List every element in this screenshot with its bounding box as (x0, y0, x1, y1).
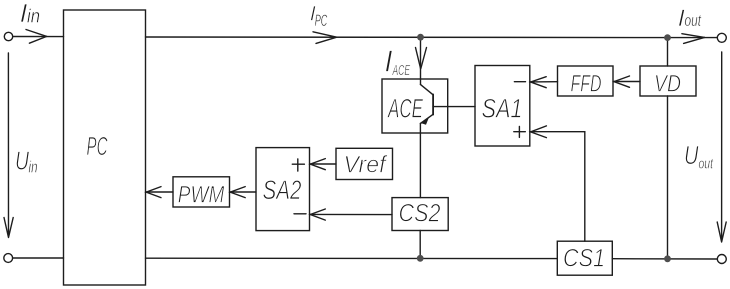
wire bottom: CS1 to T4 (612, 258, 717, 260)
transistor emitter diagonal (420, 114, 433, 123)
block SA2 (256, 148, 310, 231)
junction dot bottom at VD (664, 255, 671, 262)
svg-text:CS2: CS2 (399, 200, 441, 228)
svg-text:PC: PC (87, 131, 108, 161)
block PWM (173, 177, 230, 207)
voltage arrow U_out (right) (717, 52, 726, 242)
wire FFD to SA1 minus (530, 81, 557, 83)
svg-text:PC: PC (315, 11, 328, 30)
arrow I_in on input wire (26, 30, 47, 44)
block CS1 (557, 241, 612, 275)
terminal input bottom-left (4, 254, 13, 263)
wire ACE collector drop from top junction (420, 37, 422, 84)
plus sign SA2 (292, 159, 304, 171)
svg-text:ACE: ACE (387, 94, 424, 124)
wire PWM to PC (146, 191, 173, 193)
junction dot top at VD (664, 34, 671, 41)
block PC (64, 10, 146, 285)
svg-text:U: U (15, 146, 29, 176)
wire CS2 bottom to bottom rail (419, 231, 421, 259)
wire top: PC to T3 (146, 36, 718, 39)
wire SA2 to PWM (230, 191, 256, 193)
plus sign SA1 (514, 126, 526, 137)
terminal input top-left (4, 32, 12, 40)
arrow into SA1 minus (531, 77, 547, 88)
terminal output bottom-right (717, 255, 726, 264)
arrow I_out on top wire (682, 34, 705, 44)
arrow I_ACE down (416, 48, 427, 70)
svg-text:CS1: CS1 (563, 245, 605, 273)
arrow I_PC on top wire (313, 32, 337, 44)
arrow into SA2 minus (310, 209, 325, 220)
svg-text:out: out (685, 11, 702, 30)
arrow into PWM (230, 187, 245, 198)
minus sign SA1 (514, 81, 525, 83)
svg-text:out: out (699, 156, 714, 173)
arrow into SA1 plus (531, 126, 547, 138)
svg-text:SA2: SA2 (263, 175, 302, 205)
wire bottom-left: T2 to PC (13, 257, 64, 259)
svg-text:PWM: PWM (178, 182, 225, 209)
wire CS2 to SA2 minus (310, 213, 392, 215)
wire VD vertical bottom (667, 96, 669, 259)
svg-text:Vref: Vref (344, 152, 388, 179)
wire VD to FFD (614, 81, 641, 83)
arrow into PC (146, 187, 161, 198)
junction dot top at ACE (417, 34, 424, 41)
block FFD (558, 66, 614, 96)
block SA1 (475, 66, 530, 147)
block ACE (382, 79, 448, 133)
svg-text:SA1: SA1 (482, 94, 523, 124)
svg-text:in: in (29, 158, 38, 177)
svg-text:FFD: FFD (571, 71, 602, 98)
block VD (640, 66, 696, 96)
svg-text:VD: VD (654, 71, 681, 98)
minus sign SA2 (294, 213, 306, 215)
terminal output top-right (717, 33, 726, 42)
voltage arrow U_in (left) (4, 53, 13, 238)
junction dot bottom at CS2 (417, 255, 424, 262)
wire bottom: PC to CS1 (146, 257, 558, 259)
wire VD vertical top (667, 38, 669, 66)
wire emitter down through CS2 to bottom (419, 124, 421, 198)
transistor emitter arrowhead (421, 117, 429, 125)
arrow into FFD (614, 76, 630, 87)
wire CS1 up and to SA1 plus (530, 132, 585, 242)
svg-text:in: in (27, 7, 40, 28)
wire Vref to SA2 plus (310, 163, 336, 165)
transistor base bar (432, 94, 434, 114)
svg-text:U: U (684, 140, 699, 170)
transistor in ACE: collector diagonal (420, 84, 433, 94)
wire top-left: T1 to PC (13, 36, 64, 38)
svg-text:ACE: ACE (392, 62, 411, 79)
wire ACE base to SA1 (433, 106, 475, 108)
arrow into SA2 plus (310, 159, 325, 170)
block CS2 (392, 198, 448, 231)
block Vref (336, 148, 393, 179)
